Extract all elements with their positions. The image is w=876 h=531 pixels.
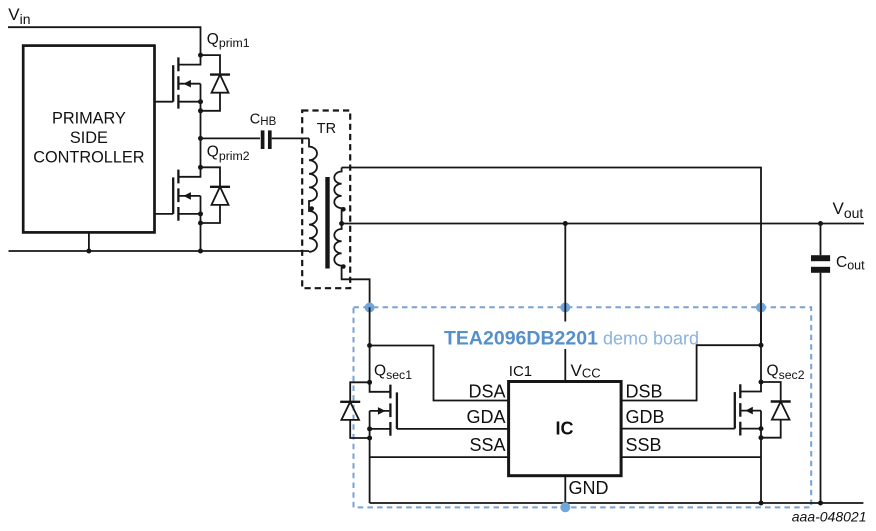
svg-text:Qsec2: Qsec2 xyxy=(767,362,805,381)
wire GND xyxy=(564,476,566,505)
label SSB xyxy=(626,435,662,455)
body diode of Qsec1 xyxy=(340,382,372,440)
label Qprim2 xyxy=(207,144,250,163)
svg-text:GND: GND xyxy=(569,478,609,498)
wire Cout to ground rail xyxy=(820,273,822,503)
svg-text:aaa-048021: aaa-048021 xyxy=(792,508,867,524)
net label Vin xyxy=(8,5,30,27)
wire controller ground stub xyxy=(88,232,90,251)
transformer primary winding xyxy=(309,138,317,252)
svg-text:IC: IC xyxy=(556,419,574,439)
node half-bridge xyxy=(198,136,203,141)
wire DSB xyxy=(621,345,761,400)
wire GDA xyxy=(397,428,509,430)
primary side controller box xyxy=(23,46,154,233)
transformer secondary winding xyxy=(334,168,369,308)
label CHB xyxy=(250,112,277,128)
body diode of Qsec2 xyxy=(759,382,791,440)
svg-text:Vout: Vout xyxy=(833,199,864,221)
node demo board input left (blue) xyxy=(365,303,375,313)
primary side controller label xyxy=(33,109,144,166)
svg-text:CONTROLLER: CONTROLLER xyxy=(33,149,144,167)
wire SSA xyxy=(370,456,509,458)
svg-text:GDB: GDB xyxy=(626,407,665,427)
label GND xyxy=(569,478,609,498)
label Qprim1 xyxy=(207,31,250,50)
node secondary center tap xyxy=(339,221,344,226)
svg-text:VCC: VCC xyxy=(571,361,601,381)
label IC1 xyxy=(509,363,532,380)
node demo board VCC (blue) xyxy=(560,303,570,313)
transformer TR dashed box xyxy=(302,111,350,289)
node demo board input right (blue) xyxy=(756,303,766,313)
svg-text:Qprim1: Qprim1 xyxy=(207,31,250,50)
IC box U1 xyxy=(509,382,621,476)
wire CHB to transformer primary xyxy=(272,137,309,139)
label DSA xyxy=(468,381,505,401)
capacitor Cout xyxy=(811,255,830,273)
wire Qprim1 gate xyxy=(155,101,173,103)
svg-text:GDA: GDA xyxy=(466,407,505,427)
transformer core xyxy=(325,177,329,269)
node demo board GND (blue) xyxy=(560,502,570,512)
svg-text:CHB: CHB xyxy=(250,112,277,128)
svg-text:Qprim2: Qprim2 xyxy=(207,144,250,163)
wire Vin rail to Qprim1 drain xyxy=(8,27,201,55)
label Qsec2 xyxy=(767,362,805,381)
svg-text:IC1: IC1 xyxy=(509,363,532,380)
svg-text:TEA2096DB2201 demo board: TEA2096DB2201 demo board xyxy=(444,327,699,349)
transistor Qsec1 xyxy=(367,307,397,503)
wire VCC xyxy=(564,224,566,382)
wire Vout to Cout xyxy=(820,224,822,256)
svg-text:SSB: SSB xyxy=(626,435,662,455)
wire GDB xyxy=(621,428,735,430)
label TEA2096DB2201 demo board xyxy=(444,327,699,349)
svg-text:Cout: Cout xyxy=(836,254,865,273)
label Qsec1 xyxy=(374,362,412,381)
label TR xyxy=(317,121,336,137)
transistor Qsec2 xyxy=(735,343,764,503)
wire half-bridge to CHB xyxy=(201,137,261,139)
svg-text:Vin: Vin xyxy=(8,5,30,27)
wire Vout rail xyxy=(342,223,864,225)
transistor Qprim2 xyxy=(173,165,203,251)
svg-text:SIDE: SIDE xyxy=(70,129,108,147)
label SSA xyxy=(469,435,505,455)
wire secondary top to Qsec2 drain xyxy=(342,168,761,383)
svg-text:DSA: DSA xyxy=(468,381,505,401)
body diode of Qprim2 xyxy=(198,167,230,225)
secondary winding phase dot upper xyxy=(341,207,346,212)
demo board dashed box xyxy=(354,307,812,507)
wire Qsec2 drain through board edge xyxy=(760,300,762,346)
svg-text:DSB: DSB xyxy=(626,381,663,401)
label IC xyxy=(556,419,574,439)
label GDA xyxy=(466,407,505,427)
primary winding phase dot xyxy=(309,206,314,211)
svg-text:TR: TR xyxy=(317,121,336,137)
label VCC xyxy=(571,361,601,381)
label Vout xyxy=(833,199,864,221)
label aaa-048021 xyxy=(792,508,867,524)
wire secondary ground rail xyxy=(370,502,864,504)
wire DSA xyxy=(370,346,509,401)
wire primary bottom rail xyxy=(9,250,310,252)
secondary winding phase dot lower xyxy=(341,264,346,269)
transistor Qprim1 xyxy=(173,53,203,168)
label GDB xyxy=(626,407,665,427)
svg-text:SSA: SSA xyxy=(469,435,505,455)
capacitor CHB xyxy=(263,130,270,149)
body diode of Qprim1 xyxy=(198,55,230,113)
svg-text:Qsec1: Qsec1 xyxy=(374,362,412,381)
svg-text:PRIMARY: PRIMARY xyxy=(52,109,126,127)
label DSB xyxy=(626,381,663,401)
wire Qprim2 gate xyxy=(155,213,173,215)
label Cout xyxy=(836,254,865,273)
wire SSB xyxy=(621,456,761,458)
